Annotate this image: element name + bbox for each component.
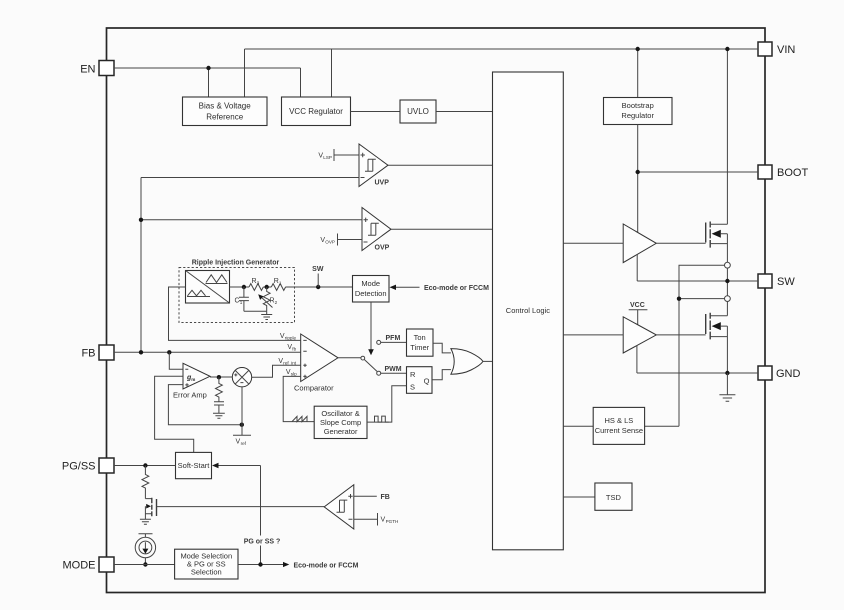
pin BOOT	[758, 165, 808, 179]
label VLSP	[318, 149, 359, 161]
svg-text:HS & LS: HS & LS	[605, 416, 634, 425]
pin GND	[758, 366, 801, 380]
label FB input	[354, 494, 390, 501]
svg-text:Comparator: Comparator	[294, 384, 334, 393]
svg-text:OVP: OVP	[325, 240, 335, 245]
svg-text:Control Logic: Control Logic	[506, 306, 550, 315]
wire LS driver ref to GND	[637, 346, 758, 373]
ground compensation	[213, 413, 225, 418]
svg-text:Ton: Ton	[414, 333, 426, 342]
svg-text:Bias & Voltage: Bias & Voltage	[199, 102, 252, 111]
wire control to TSD	[563, 496, 595, 498]
svg-text:Bootstrap: Bootstrap	[622, 101, 654, 110]
svg-text:PG or SS ?: PG or SS ?	[244, 539, 281, 546]
wire control to HS driver	[563, 242, 623, 244]
svg-text:1: 1	[279, 281, 282, 286]
svg-text:Timer: Timer	[410, 343, 429, 352]
wire control to LS driver	[563, 334, 623, 336]
wire sense to SW junction	[726, 268, 728, 296]
svg-text:OVP: OVP	[375, 245, 390, 252]
label VCC supply	[629, 302, 648, 325]
block VCC Regulator	[282, 97, 351, 126]
node sense junction	[677, 297, 681, 301]
svg-text:SW: SW	[312, 266, 324, 273]
block Control Logic	[493, 72, 564, 550]
node EN junction	[206, 66, 210, 70]
wire LS source to GND	[726, 326, 728, 373]
sawtooth glyph	[292, 416, 307, 421]
block HS LS Current Sense	[593, 407, 644, 444]
buffer LS driver	[623, 317, 656, 353]
ground soft-start	[140, 519, 151, 524]
svg-text:S: S	[410, 383, 415, 392]
comparator PG	[324, 485, 354, 529]
wire UVP output	[388, 164, 493, 166]
svg-text:Generator: Generator	[324, 427, 358, 436]
current source MODE detect	[135, 534, 155, 565]
node SW tap	[312, 266, 324, 289]
svg-text:Soft-Start: Soft-Start	[178, 461, 211, 470]
transistor LS MOSFET	[706, 313, 728, 340]
ripple injection generator group	[179, 260, 295, 323]
resistor R1	[271, 278, 285, 290]
svg-text:Reference: Reference	[206, 113, 243, 122]
node GND junction	[725, 371, 729, 375]
svg-text:Mode: Mode	[361, 279, 380, 288]
ground R2	[261, 311, 272, 319]
svg-text:ref: ref	[241, 441, 247, 446]
node VIN-hsfet junction	[725, 47, 729, 51]
capacitor C1	[234, 287, 266, 311]
wire ripple output rail	[230, 286, 353, 288]
comparator OVP	[362, 208, 391, 252]
pin VIN	[758, 42, 795, 56]
wire mode selection output	[238, 562, 359, 570]
pin FB	[81, 345, 114, 360]
svg-text:Error Amp: Error Amp	[173, 391, 207, 400]
resistor soft-start discharge	[142, 466, 149, 499]
switch pole	[338, 356, 377, 371]
node HS sense tap	[725, 262, 731, 268]
comparator main PWM	[294, 334, 338, 393]
svg-text:FB: FB	[381, 494, 390, 501]
svg-text:VCC: VCC	[630, 302, 645, 309]
pin EN	[80, 61, 114, 76]
wire HS driver to gate	[656, 242, 705, 244]
svg-text:slp: slp	[291, 372, 297, 377]
node FB-UVP junction	[139, 350, 143, 354]
label Vref_int	[278, 358, 296, 366]
wire OVP output	[391, 228, 493, 230]
label VOVP	[320, 234, 362, 246]
node ripple-C1 junction	[242, 285, 246, 289]
pulse glyph	[375, 416, 389, 422]
svg-text:LSP: LSP	[323, 155, 332, 160]
svg-text:Slope Comp: Slope Comp	[320, 418, 361, 427]
gate OR	[451, 349, 483, 375]
svg-text:MODE: MODE	[63, 560, 96, 572]
wire EN to bias and vcc blocks	[114, 68, 301, 97]
block Mode Selection	[175, 549, 238, 579]
block Ton Timer	[407, 329, 434, 356]
op-amp Error Amp	[173, 363, 210, 399]
node FB-OVP junction	[139, 218, 143, 222]
node PG/SS junction	[143, 463, 147, 467]
svg-text:Detection: Detection	[355, 289, 387, 298]
node BOOT junction	[636, 170, 640, 174]
svg-text:FB: FB	[81, 348, 95, 360]
svg-text:R: R	[410, 370, 416, 379]
svg-text:EN: EN	[80, 64, 95, 76]
label Vripple	[280, 333, 297, 341]
switch contact PWM	[377, 366, 407, 375]
svg-text:m: m	[191, 377, 195, 382]
block Mode Detection	[353, 276, 390, 303]
svg-text:VCC Regulator: VCC Regulator	[289, 107, 343, 116]
svg-text:C: C	[234, 298, 239, 305]
label PG or SS	[243, 536, 281, 546]
resistor R2 variable	[258, 287, 277, 311]
svg-text:Ripple Injection Generator: Ripple Injection Generator	[192, 260, 280, 267]
node SW junction	[725, 279, 729, 283]
svg-text:Eco-mode or FCCM: Eco-mode or FCCM	[294, 563, 359, 570]
IC outline border	[107, 28, 766, 593]
svg-text:BOOT: BOOT	[777, 167, 808, 179]
svg-text:Regulator: Regulator	[621, 111, 654, 120]
wire LS driver to gate	[656, 334, 705, 336]
ground power	[719, 373, 735, 401]
switch contact PFM	[377, 335, 407, 345]
svg-text:ref_int: ref_int	[283, 361, 296, 366]
label VPGTH input	[354, 513, 399, 526]
wire VCC to UVLO	[351, 111, 401, 113]
svg-text:2: 2	[275, 300, 278, 305]
svg-text:ripple: ripple	[285, 336, 297, 341]
wire oscillator to Vslp input	[283, 376, 314, 421]
block RS latch	[407, 367, 433, 394]
wire soft-start to error amp	[155, 376, 194, 452]
resistor compensation	[215, 377, 222, 401]
block Oscillator and Slope Comp Generator	[314, 406, 367, 438]
capacitor compensation	[214, 402, 224, 413]
svg-text:Eco-mode or FCCM: Eco-mode or FCCM	[424, 285, 489, 292]
transistor HS MOSFET	[706, 222, 728, 248]
buffer HS driver	[623, 224, 656, 263]
wire ripple generator to Vripple input	[169, 287, 301, 340]
wire MODE to selection block	[114, 564, 175, 566]
resistor R3	[249, 278, 263, 290]
wire LS drain	[726, 302, 728, 316]
wire FB to OVP plus	[141, 219, 362, 221]
wire HS driver ref to SW	[637, 254, 758, 281]
pin PG/SS	[62, 458, 114, 473]
waveform generator block	[186, 271, 230, 304]
wire Vref to error amp plus	[168, 385, 241, 425]
label Vfb	[287, 344, 296, 352]
svg-text:Current Sense: Current Sense	[595, 426, 643, 435]
label Vslp	[286, 369, 297, 377]
block TSD	[595, 483, 632, 510]
block UVLO	[400, 100, 436, 123]
wire FB rail	[114, 351, 301, 353]
wire PG comparator to gate	[157, 506, 325, 508]
source Vref	[233, 387, 251, 446]
block Bias & Voltage Reference	[183, 97, 268, 126]
wire Mode Detection to mode switch	[368, 302, 374, 355]
wire Ton Timer to OR gate	[433, 343, 451, 353]
svg-text:fb: fb	[292, 347, 296, 352]
svg-text:Q: Q	[424, 377, 430, 386]
svg-text:1: 1	[240, 300, 243, 305]
wire RS Q to OR gate	[432, 370, 451, 380]
node FB-erroramp junction	[167, 350, 171, 354]
transistor Q1 PG pulldown	[145, 498, 156, 519]
wire HS source to SW node	[726, 234, 728, 262]
block Soft-Start	[176, 452, 212, 478]
multiplier soft-start x Vref	[232, 368, 251, 387]
wire LS sense line	[645, 299, 725, 427]
svg-text:PG/SS: PG/SS	[62, 461, 96, 473]
wire VIN rail	[245, 49, 759, 224]
wire UVLO to Control Logic	[436, 111, 493, 113]
pin MODE	[63, 557, 115, 572]
node error amp output junction	[217, 375, 221, 379]
wire Eco-mode into Mode Detection	[390, 285, 490, 292]
svg-text:Oscillator &: Oscillator &	[321, 409, 359, 418]
svg-text:SW: SW	[777, 276, 795, 288]
comparator UVP	[359, 144, 389, 187]
wire PG/SS to Soft-Start	[114, 465, 176, 467]
wire FB to UVP minus	[141, 178, 359, 353]
wire bootstrap to BOOT	[638, 125, 758, 233]
node MODE current source junction	[143, 562, 147, 566]
block Bootstrap Regulator	[604, 98, 673, 125]
svg-text:UVP: UVP	[375, 180, 390, 187]
svg-text:PWM: PWM	[385, 366, 402, 373]
wire HS sense line	[679, 265, 725, 299]
svg-text:PFM: PFM	[386, 335, 401, 342]
node Vref junction	[240, 423, 244, 427]
node ripple-R2 junction	[265, 285, 269, 289]
wire control to current sense	[563, 425, 593, 427]
svg-text:GND: GND	[776, 368, 801, 380]
wire error amp output	[210, 376, 232, 378]
svg-text:VIN: VIN	[777, 44, 795, 56]
node VIN-bootstrap junction	[636, 47, 640, 51]
wire mode select to Soft-Start arrow	[212, 463, 261, 565]
node LS sense tap	[725, 296, 731, 302]
wire multiplier to Vref_int input	[252, 365, 301, 377]
wire oscillator to RS S input	[367, 386, 407, 422]
svg-text:PGTH: PGTH	[386, 519, 399, 524]
wire OR to Control Logic	[483, 360, 493, 362]
svg-text:UVLO: UVLO	[407, 107, 429, 116]
svg-text:3: 3	[257, 281, 260, 286]
pin SW	[758, 274, 795, 288]
wire FB to error amp inverting	[169, 352, 183, 369]
svg-text:Selection: Selection	[191, 568, 222, 577]
svg-text:TSD: TSD	[606, 493, 622, 502]
